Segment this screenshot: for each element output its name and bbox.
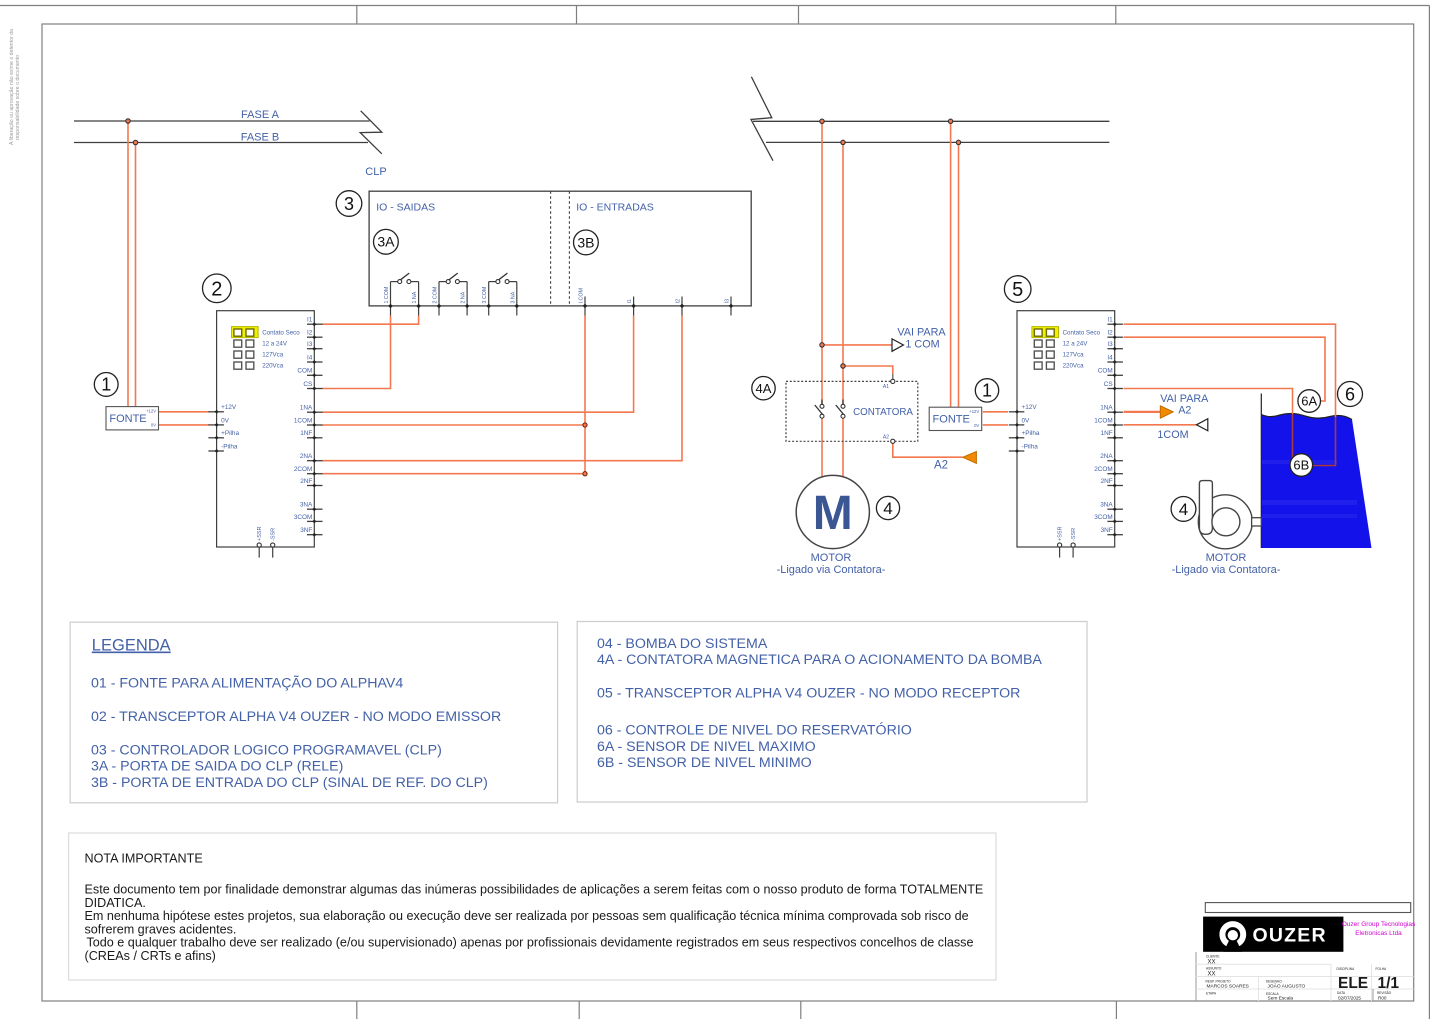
svg-text:NOTA IMPORTANTE: NOTA IMPORTANTE (85, 852, 203, 866)
wire FASE A down to FONTE5 (950, 121, 952, 407)
svg-text:2NF: 2NF (1101, 478, 1113, 485)
svg-text:2NA: 2NA (1100, 453, 1113, 460)
svg-text:RESP. PROJETO: RESP. PROJETO (1206, 979, 1232, 983)
power supply FONTE 1 (right) (929, 407, 982, 430)
wire block2 1NA to CLP input I1 (322, 316, 634, 413)
svg-text:OUZER: OUZER (1253, 925, 1327, 947)
bottom margin fold ticks (356, 1001, 358, 1019)
callout 4 (right pump) (1171, 497, 1196, 522)
top margin fold ticks (356, 6, 358, 25)
contactor coil pin A2 (891, 439, 895, 443)
revision strip (empty) (1205, 903, 1410, 913)
svg-text:A2: A2 (934, 459, 948, 471)
svg-text:ETAPA: ETAPA (1206, 992, 1217, 996)
svg-text:3B - PORTA DE ENTRADA DO CLP (: 3B - PORTA DE ENTRADA DO CLP (SINAL DE R… (91, 775, 488, 791)
wire FONTE1 +12V to block2 (159, 411, 210, 413)
svg-text:6B - SENSOR DE NIVEL MINIMO: 6B - SENSOR DE NIVEL MINIMO (597, 755, 812, 771)
svg-text:VAI PARA: VAI PARA (1160, 393, 1209, 405)
svg-text:I3: I3 (307, 341, 313, 348)
callout 3B (574, 230, 599, 255)
CLP internal divider (dashed) (550, 191, 552, 306)
svg-text:COM: COM (1098, 368, 1113, 375)
svg-text:I.COM: I.COM (579, 288, 585, 303)
svg-text:FASE B: FASE B (241, 131, 280, 143)
transceiver block U5 receiver (1009, 311, 1123, 558)
relay contact 3 in CLP output (482, 273, 519, 315)
svg-text:+Pilha: +Pilha (221, 430, 239, 437)
svg-text:A1: A1 (883, 384, 889, 390)
svg-text:DATA: DATA (1337, 991, 1346, 995)
svg-text:4: 4 (1179, 500, 1188, 519)
svg-text:REVISÃO: REVISÃO (1377, 990, 1392, 995)
svg-text:XX: XX (1208, 972, 1216, 978)
svg-text:3NF: 3NF (300, 527, 312, 534)
line break symbol left (360, 111, 382, 154)
CLP input pins I.COM I1 I2 I3 (584, 297, 586, 316)
wire block5 1NA to VAI PARA A2 flag (1124, 411, 1161, 413)
svg-text:05 - TRANSCEPTOR ALPHA V4 OUZE: 05 - TRANSCEPTOR ALPHA V4 OUZER - NO MOD… (597, 685, 1020, 701)
wire FASE A left segment (74, 120, 370, 122)
sheet outer right border line (1428, 6, 1430, 1019)
relay contact 1 in CLP output (384, 273, 421, 315)
svg-text:0V: 0V (151, 422, 156, 427)
svg-text:2COM: 2COM (294, 466, 312, 473)
svg-text:MOTOR: MOTOR (1206, 552, 1247, 564)
wire FONTE1 0V to block2 (159, 424, 210, 426)
contactor A1 pin lead (892, 374, 894, 381)
reservoir tank 6 (water) (1261, 413, 1371, 548)
svg-text:0V: 0V (221, 417, 230, 424)
wire block5 I2 to sensor 6A (1124, 337, 1326, 401)
wire block5 1COM to 1COM flag (1124, 424, 1197, 426)
contactor coil pin A1 (891, 379, 895, 383)
svg-text:1: 1 (982, 381, 992, 401)
wire CLP I.COM vertical bus (584, 316, 586, 474)
svg-text:MARCOS SOARES: MARCOS SOARES (1207, 984, 1249, 990)
svg-text:12 a 24V: 12 a 24V (262, 340, 288, 347)
svg-text:CS: CS (303, 381, 312, 388)
legend box 2 (577, 622, 1087, 803)
svg-text:sofrerem graves acidentes.: sofrerem graves acidentes. (85, 922, 237, 936)
water highlight streaks (1262, 460, 1337, 464)
junction on I.COM at 1COM row (583, 423, 587, 427)
svg-text:2 NA: 2 NA (461, 291, 467, 303)
motor M (ligado via contatora) (796, 475, 869, 548)
svg-text:+12V: +12V (969, 409, 979, 414)
callout 2 (203, 274, 232, 303)
svg-text:+SSR: +SSR (1058, 526, 1064, 541)
water surface line (1261, 413, 1352, 419)
contactor pole contact right (836, 400, 845, 419)
svg-text:I3: I3 (1107, 341, 1113, 348)
svg-text:220Vca: 220Vca (1063, 362, 1085, 369)
callout 3 (336, 191, 362, 217)
svg-text:-SSR: -SSR (1071, 528, 1077, 541)
svg-text:+12V: +12V (1022, 404, 1038, 411)
svg-text:1NA: 1NA (1100, 405, 1113, 412)
svg-text:CONTATORA: CONTATORA (853, 407, 913, 418)
svg-text:I2: I2 (307, 330, 313, 337)
title block (1196, 903, 1416, 1002)
wire block2 CS to CLP contact 1COM (322, 316, 391, 389)
svg-text:Eletronicas Ltda: Eletronicas Ltda (1355, 930, 1402, 937)
wire FASE B down through contactor to motor (right pole) (842, 142, 844, 404)
svg-text:4: 4 (883, 499, 892, 518)
svg-text:ESCALA: ESCALA (1266, 992, 1279, 996)
wire block2 2NA to CLP input I2 (322, 316, 682, 461)
svg-text:I1: I1 (627, 299, 633, 303)
svg-text:3A - PORTA DE SAIDA DO CLP (RE: 3A - PORTA DE SAIDA DO CLP (RELE) (91, 759, 343, 775)
svg-text:IO - ENTRADAS: IO - ENTRADAS (576, 202, 654, 214)
svg-text:2 COM: 2 COM (433, 287, 439, 304)
svg-text:2NF: 2NF (300, 478, 312, 485)
svg-text:6A - SENSOR DE NIVEL MAXIMO: 6A - SENSOR DE NIVEL MAXIMO (597, 739, 816, 755)
svg-text:M: M (813, 487, 853, 540)
wire block2 I1 to CLP contact 1NA (322, 316, 419, 325)
svg-text:3COM: 3COM (1094, 514, 1112, 521)
svg-text:-SSR: -SSR (271, 528, 277, 541)
svg-text:(CREAs / CRTs e afins): (CREAs / CRTs e afins) (85, 949, 216, 963)
svg-text:+12V: +12V (221, 404, 237, 411)
svg-text:FONTE: FONTE (933, 413, 970, 425)
svg-text:DESENHO: DESENHO (1266, 979, 1282, 983)
company logo OUZER (1203, 917, 1343, 952)
svg-text:Contato Seco: Contato Seco (1063, 329, 1101, 336)
svg-text:Em nenhuma hipótese estes proj: Em nenhuma hipótese estes projetos, sua … (85, 909, 969, 923)
sheet outer top border line (0, 5, 1429, 7)
sensor 6A nivel maximo (1298, 390, 1321, 413)
svg-text:04 - BOMBA DO SISTEMA: 04 - BOMBA DO SISTEMA (597, 636, 768, 652)
callout 1 (left fonte) (94, 373, 118, 397)
svg-text:3 COM: 3 COM (482, 287, 488, 304)
wire contactor A2 to flag (893, 441, 963, 457)
wire block2 1COM to CLP input I.COM (322, 424, 585, 426)
svg-text:ASSUNTO: ASSUNTO (1206, 967, 1222, 971)
svg-text:3A: 3A (377, 234, 395, 250)
svg-text:A2: A2 (883, 434, 889, 440)
callout 3A (374, 229, 399, 254)
wire to contactor coil A1 (843, 366, 893, 374)
svg-text:IO - SAIDAS: IO - SAIDAS (376, 202, 435, 214)
power supply FONTE 1 (left) (106, 407, 159, 430)
svg-text:VAI PARA: VAI PARA (897, 326, 946, 338)
svg-text:1NA: 1NA (300, 405, 313, 412)
svg-text:3NA: 3NA (300, 502, 313, 509)
svg-text:6: 6 (1345, 384, 1355, 404)
wire FASE B left segment (74, 142, 368, 144)
svg-text:220Vca: 220Vca (262, 362, 284, 369)
svg-text:COM: COM (297, 368, 312, 375)
line break symbol right (751, 77, 773, 161)
tank left wall (1260, 394, 1262, 549)
svg-text:3B: 3B (577, 234, 594, 250)
off-page flag VAI PARA A2 (filled triangle at block5 1NA) (1160, 406, 1173, 418)
wire FONTE5 0V to block5 (983, 424, 1008, 426)
contactor pole contact left (815, 400, 824, 419)
callout 5 (1004, 276, 1031, 303)
svg-text:-Ligado via Contatora-: -Ligado via Contatora- (777, 564, 886, 576)
wire block5 CS to sensor 6B (left) (1124, 389, 1293, 415)
svg-text:5: 5 (1012, 279, 1023, 301)
svg-text:-Ligado via Contatora-: -Ligado via Contatora- (1172, 564, 1281, 576)
svg-text:1 COM: 1 COM (384, 287, 390, 304)
CLP controller block U3 (369, 191, 751, 306)
wire FASE A down through contactor to motor (left pole) (821, 121, 823, 404)
callout 4 (left motor) (876, 496, 899, 519)
svg-text:-Pilha: -Pilha (221, 443, 238, 450)
svg-text:I2: I2 (676, 299, 682, 303)
svg-text:Este documento tem por finalid: Este documento tem por finalidade demons… (85, 883, 984, 897)
svg-text:FONTE: FONTE (109, 413, 146, 425)
wire block2 2COM to CLP input I.COM (322, 473, 585, 475)
svg-text:2: 2 (211, 278, 222, 300)
svg-text:JOÃO AUGUSTO: JOÃO AUGUSTO (1268, 983, 1306, 990)
svg-text:127Vca: 127Vca (1063, 351, 1085, 358)
svg-text:Todo e qualquer trabalho deve: Todo e qualquer trabalho deve ser realiz… (87, 936, 974, 950)
svg-text:3COM: 3COM (294, 514, 312, 521)
svg-text:1/1: 1/1 (1378, 975, 1400, 992)
transceiver block U2 emitter (208, 311, 322, 558)
svg-text:03 - CONTROLADOR LOGICO PROGRA: 03 - CONTROLADOR LOGICO PROGRAMAVEL (CLP… (91, 742, 442, 758)
svg-text:I4: I4 (1107, 354, 1113, 361)
svg-text:+SSR: +SSR (257, 526, 263, 541)
svg-text:02/07/2025: 02/07/2025 (1338, 996, 1361, 1001)
wire FASE B right segment (766, 141, 1109, 143)
svg-text:responsabilidade sobre o docum: responsabilidade sobre o documento (15, 55, 21, 140)
svg-text:1 COM: 1 COM (905, 338, 939, 350)
svg-text:I1: I1 (1107, 317, 1113, 324)
callout 6 (1338, 382, 1363, 407)
svg-text:CLIENTE: CLIENTE (1206, 955, 1219, 959)
svg-text:FOLHA: FOLHA (1376, 967, 1388, 971)
wire block5 I1 to sensor 6B (right) (1124, 324, 1336, 417)
wire FASE A down to FONTE1 (127, 121, 129, 407)
wire FASE B down to FONTE1 (135, 143, 137, 407)
svg-text:4A: 4A (756, 381, 772, 396)
svg-text:127Vca: 127Vca (262, 351, 284, 358)
svg-text:1COM: 1COM (1157, 429, 1188, 441)
svg-text:1NF: 1NF (300, 430, 312, 437)
svg-text:-Pilha: -Pilha (1022, 443, 1039, 450)
svg-text:06 - CONTROLE DE NIVEL DO RESE: 06 - CONTROLE DE NIVEL DO RESERVATÓRIO (597, 722, 912, 739)
svg-text:6B: 6B (1293, 458, 1309, 473)
junction on I.COM at 2COM row (583, 472, 587, 476)
contactor CONTATORA 4A (dashed box) (786, 381, 918, 441)
svg-text:FASE A: FASE A (241, 109, 280, 121)
svg-text:+Pilha: +Pilha (1022, 430, 1040, 437)
svg-text:Sem Escala: Sem Escala (1268, 996, 1294, 1002)
svg-text:1: 1 (101, 375, 111, 395)
callout 1 (right fonte) (975, 379, 998, 402)
svg-text:I1: I1 (307, 317, 313, 324)
svg-text:3 NA: 3 NA (510, 291, 516, 303)
svg-text:XX: XX (1208, 960, 1216, 966)
svg-text:ELE: ELE (1338, 975, 1368, 992)
svg-text:DISCIPLINA: DISCIPLINA (1337, 967, 1356, 971)
sensor 6B nivel minimo (1290, 454, 1313, 477)
svg-text:CS: CS (1104, 381, 1113, 388)
off-page flag VAI PARA 1 COM (open triangle) (892, 339, 903, 351)
junction dots (126, 119, 130, 123)
svg-text:0V: 0V (974, 423, 979, 428)
svg-text:3NF: 3NF (1101, 527, 1113, 534)
off-page flag A2 (filled triangle, near contactor) (963, 452, 977, 464)
svg-text:0V: 0V (1022, 417, 1031, 424)
svg-text:4A - CONTATORA MAGNETICA PARA: 4A - CONTATORA MAGNETICA PARA O ACIONAME… (597, 652, 1042, 668)
nota importante box (69, 833, 996, 980)
svg-text:MOTOR: MOTOR (811, 552, 852, 564)
svg-text:01 - FONTE PARA ALIMENTAÇÃO DO: 01 - FONTE PARA ALIMENTAÇÃO DO ALPHAV4 (91, 675, 403, 692)
wire FASE A right segment (753, 120, 1109, 122)
svg-text:2COM: 2COM (1094, 466, 1112, 473)
svg-text:Ouzer Group Tecnologias: Ouzer Group Tecnologias (1342, 921, 1416, 928)
svg-text:1COM: 1COM (1094, 417, 1112, 424)
callout 4A (752, 377, 775, 400)
title block grid lines (1195, 952, 1197, 1001)
wire FONTE5 +12V to block5 (983, 411, 1008, 413)
svg-text:LEGENDA: LEGENDA (92, 637, 171, 655)
svg-text:02 - TRANSCEPTOR ALPHA V4 OUZE: 02 - TRANSCEPTOR ALPHA V4 OUZER - NO MOD… (91, 709, 501, 725)
svg-text:DIDATICA.: DIDATICA. (85, 896, 146, 910)
svg-text:I2: I2 (1107, 330, 1113, 337)
svg-text:3: 3 (344, 194, 354, 214)
svg-text:CLP: CLP (365, 166, 386, 178)
pump 4 (bomba) (1198, 481, 1261, 549)
svg-text:1NF: 1NF (1101, 430, 1113, 437)
svg-text:I3: I3 (725, 299, 731, 303)
svg-text:+12V: +12V (146, 408, 156, 413)
svg-text:R00: R00 (1378, 996, 1387, 1001)
legend box 1 (70, 622, 557, 803)
svg-text:2NA: 2NA (300, 453, 313, 460)
svg-text:12 a 24V: 12 a 24V (1063, 340, 1089, 347)
relay contact 2 in CLP output (433, 273, 470, 315)
svg-text:1COM: 1COM (294, 417, 312, 424)
wire FASE B down to FONTE5 (958, 142, 960, 407)
svg-text:Contato Seco: Contato Seco (262, 329, 300, 336)
wire to VAI PARA 1 COM flag (822, 344, 892, 346)
svg-text:A2: A2 (1178, 405, 1191, 417)
svg-text:6A: 6A (1301, 394, 1317, 409)
off-page flag 1COM (open triangle at block5 1COM) (1197, 419, 1208, 431)
svg-text:3NA: 3NA (1100, 502, 1113, 509)
svg-text:I4: I4 (307, 354, 313, 361)
svg-text:1 NA: 1 NA (412, 291, 418, 303)
